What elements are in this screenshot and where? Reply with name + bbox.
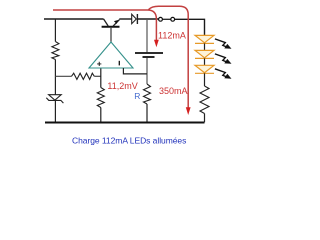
transistor Q1 collector lead <box>104 19 109 26</box>
wire top rail left segment <box>44 18 104 20</box>
LED D3 <box>195 50 214 58</box>
wire op-amp minus input stub to battery branch <box>123 68 147 74</box>
battery BT1 negative plate <box>143 56 155 58</box>
svg-text:11,2mV: 11,2mV <box>107 81 137 91</box>
transistor Q1 base bar <box>102 26 120 28</box>
resistor R1 zigzag (left top) <box>52 42 59 60</box>
transistor Q1 emitter lead with arrow <box>113 20 120 27</box>
wire junction to horizontal resistor <box>55 75 71 77</box>
wire R4 to bottom rail <box>204 114 206 123</box>
resistor R zigzag <box>144 84 151 104</box>
red arrow head 112mA <box>154 40 159 47</box>
LED D2 <box>195 35 214 43</box>
wire R2 to bottom rail <box>100 108 102 123</box>
wire LED D4 to resistor R4 <box>204 73 206 86</box>
wire switch to top-right corner and down to LED1 <box>175 19 205 35</box>
svg-text:R: R <box>134 91 140 101</box>
wire R3 to plus-input node <box>94 75 101 77</box>
wire LED D3 to LED D4 <box>204 58 206 65</box>
LED D4 emission arrow <box>215 69 227 77</box>
LED D4 <box>195 65 214 73</box>
switch S1 contact circle 1 <box>159 17 163 21</box>
LED D2 emission arrow <box>215 39 227 47</box>
wire bottom rail (0V) <box>45 122 205 124</box>
op-amp U1 triangle <box>89 42 133 68</box>
wire zener to bottom rail <box>54 100 56 122</box>
svg-text:Charge 112mA LEDs allumées: Charge 112mA LEDs allumées <box>72 135 186 145</box>
LED D3 emission arrow <box>215 54 227 62</box>
wire battery bottom to resistor R <box>146 58 148 84</box>
wire between switch contacts <box>162 18 170 20</box>
wire op-amp plus input stub <box>100 68 102 88</box>
svg-text:+: + <box>97 58 102 68</box>
wire left branch from top rail <box>54 19 56 42</box>
wire transistor base to op-amp output <box>110 28 112 42</box>
resistor R2 zigzag (below plus node) <box>97 88 104 108</box>
wire top rail diode to switch <box>137 18 158 20</box>
switch S1 contact circle 2 <box>171 17 175 21</box>
battery BT1 positive plate <box>135 52 163 54</box>
diode D1 <box>132 14 137 24</box>
wire resistor R to bottom rail <box>146 104 148 122</box>
red current path 112mA <box>53 10 156 41</box>
red current path 350mA arc over switch <box>149 6 189 107</box>
svg-text:350mA: 350mA <box>159 86 188 96</box>
resistor R3 zigzag (horizontal) <box>72 73 95 79</box>
resistor R4 zigzag (LED series) <box>200 86 209 114</box>
op-amp U1 minus input mark <box>118 61 120 66</box>
wire R1 to zener junction <box>54 60 56 95</box>
zener diode DZ1 <box>49 95 62 101</box>
svg-text:112mA: 112mA <box>158 30 186 40</box>
wire LED D2 to LED D3 <box>204 43 206 50</box>
wire battery branch from top rail <box>146 19 148 52</box>
red arrow head 350mA <box>186 107 191 115</box>
wire top rail between transistor and diode <box>119 18 131 20</box>
